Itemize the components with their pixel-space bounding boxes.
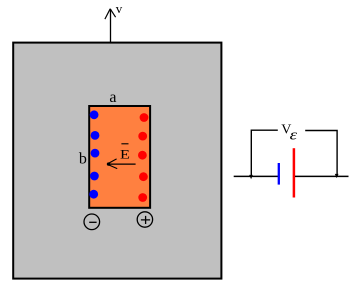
bracket left (wire to V label) [251,130,277,176]
positive charge dot 1 [140,113,149,122]
E-field arrowhead [107,159,117,169]
E-field arrow shaft [107,163,136,165]
negative charge dot 5 [89,190,98,199]
svg-text:b: b [79,151,87,168]
positive terminal symbol circle [137,212,152,227]
velocity arrow shaft [110,9,112,42]
negative charge dot 2 [91,131,100,140]
wire left segment [234,175,278,177]
junction dot right [335,174,339,178]
bracket right (V label to wire) [305,131,337,177]
svg-text:v: v [116,1,123,16]
positive charge dot 2 [138,132,147,141]
battery negative plate (blue short bar) [278,163,280,185]
positive charge dot 5 [138,193,147,202]
E-field arrow tip dot [107,162,110,165]
positive terminal plus [141,216,150,224]
svg-text:E: E [120,148,130,162]
negative terminal minus [89,221,96,223]
svg-text:ε: ε [290,126,298,142]
wire right segment [295,175,349,177]
negative charge dot 3 [91,149,100,158]
junction dot left [249,175,253,179]
negative charge dot 1 [90,110,99,119]
velocity arrowhead [105,9,116,19]
negative charge dot 4 [90,172,99,181]
conductor slab (gray region) [13,43,221,279]
bar over E [121,143,128,145]
positive charge dot 3 [138,151,147,160]
svg-text:a: a [109,89,116,106]
negative terminal symbol circle [84,214,100,230]
charged region (orange slab) [89,106,150,208]
positive charge dot 4 [139,172,148,181]
battery positive plate (red long bar) [293,148,296,197]
